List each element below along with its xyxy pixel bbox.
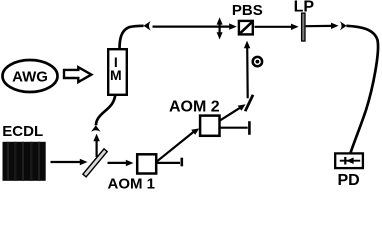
polarizing beam splitter PBS <box>239 21 253 35</box>
wire beam AOM 1 to AOM 2 <box>157 128 199 161</box>
polarization arrow (vertical double head) <box>217 17 223 39</box>
svg-text:PD: PD <box>337 172 359 189</box>
wire beam AOM 2 to mirror <box>220 104 245 120</box>
svg-text:AOM 2: AOM 2 <box>169 99 220 116</box>
fiber port (collimator) top right <box>340 21 347 30</box>
wire beam sampler to AOM 1 <box>108 160 134 166</box>
wire beam sampler up to fiber port <box>93 134 99 157</box>
svg-text:AWG: AWG <box>12 68 48 85</box>
wire zero-order AOM 2 to dump <box>220 121 249 135</box>
beam sampler plate <box>83 149 107 177</box>
svg-text:ECDL: ECDL <box>2 123 43 140</box>
block arrow AWG to IM <box>64 67 91 82</box>
AWG oval <box>3 60 58 92</box>
wire beam ECDL to sampler <box>51 159 88 165</box>
svg-text:M: M <box>110 67 122 83</box>
laser ECDL <box>3 142 46 181</box>
wire beam mirror up to PBS <box>244 41 250 99</box>
fiber IM bottom to port <box>96 95 115 125</box>
AOM 2 <box>200 116 219 136</box>
wire beam port to PBS <box>153 23 237 29</box>
fiber port to PD <box>346 26 378 153</box>
fiber port (collimator) top left <box>144 21 151 31</box>
AOM 1 <box>137 154 156 173</box>
wire beam LP to fiber port <box>306 23 339 29</box>
fiber port (collimator) below IM <box>91 125 101 132</box>
wire beam PBS to LP <box>255 24 299 30</box>
photodiode PD <box>335 153 363 168</box>
svg-text:AOM 1: AOM 1 <box>108 176 156 191</box>
mirror <box>245 95 253 111</box>
linear polarizer LP <box>302 13 305 41</box>
fiber IM top to port <box>120 26 144 50</box>
intensity modulator IM <box>108 49 127 95</box>
polarization out-of-plane symbol <box>253 57 262 66</box>
wire zero-order AOM 1 to dump <box>157 158 182 167</box>
svg-text:PBS: PBS <box>232 2 263 19</box>
